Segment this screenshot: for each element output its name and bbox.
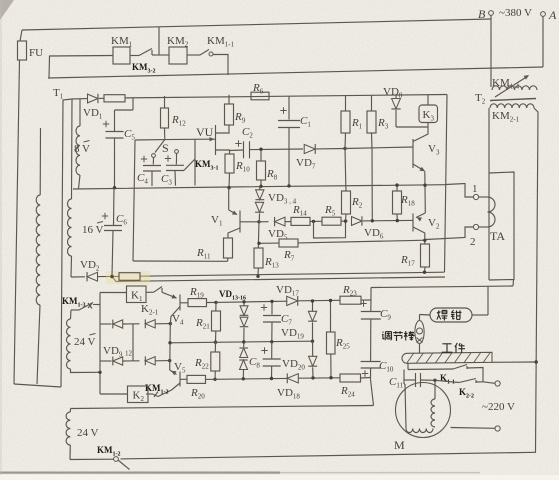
label plus C4 xyxy=(141,156,147,162)
wire left bus V100 xyxy=(99,293,101,395)
capacitor C6 xyxy=(104,188,122,277)
junction R13 bottom xyxy=(256,275,259,278)
label 24V mid xyxy=(74,334,96,349)
wire workpiece right xyxy=(492,361,536,363)
transistor V5 xyxy=(158,370,187,397)
diode VD7 xyxy=(304,144,345,154)
label KM1 xyxy=(111,35,133,49)
junction VD2 rail xyxy=(110,275,113,278)
svg-text:16 V: 16 V xyxy=(82,224,104,236)
label VD5 xyxy=(268,228,288,242)
motor winding aux xyxy=(404,384,433,433)
transistor V3 xyxy=(413,127,428,186)
winding T1 16V xyxy=(68,99,73,277)
label K3 xyxy=(423,109,435,123)
label KM1-2 bottom xyxy=(97,445,121,458)
label R14 xyxy=(292,204,307,218)
svg-text:1: 1 xyxy=(472,183,478,195)
capacitor C2 xyxy=(230,141,304,158)
junction VD19 mid xyxy=(311,340,314,343)
diode VD6 xyxy=(352,216,413,225)
label C9 xyxy=(380,308,391,322)
wire node KM2 feed xyxy=(159,27,169,56)
contact K1-1 xyxy=(453,365,483,382)
junction R22 bottom xyxy=(213,378,216,381)
label 24V bottom xyxy=(77,427,99,439)
contact KM1-2 bottom xyxy=(114,452,536,469)
label plus C2 xyxy=(235,140,241,146)
junction C8 bottom xyxy=(270,377,273,380)
label plus C7 xyxy=(261,304,267,310)
wire right edge xyxy=(445,95,448,273)
motor winding main xyxy=(431,380,435,427)
diode VD14 xyxy=(240,317,249,342)
resistor after VD1 xyxy=(104,95,125,102)
junction R18 bottom xyxy=(396,219,399,222)
label C5 xyxy=(124,128,135,142)
label K1-1 xyxy=(440,373,455,386)
junction R25 bottom xyxy=(329,376,332,379)
winding T1 8V xyxy=(76,99,80,189)
svg-text:12: 12 xyxy=(125,350,133,358)
label KM2 xyxy=(167,35,189,49)
label R3 xyxy=(377,117,389,131)
label VD18 xyxy=(277,387,300,401)
capacitor C10 xyxy=(361,362,381,380)
svg-text:VU: VU xyxy=(196,125,214,139)
core T2 xyxy=(490,99,536,101)
terminal 1 xyxy=(473,194,478,199)
label plus C6 xyxy=(102,213,108,219)
label FU xyxy=(29,47,43,59)
fuse FU xyxy=(14,30,27,384)
label B xyxy=(478,7,486,21)
label V1 xyxy=(211,214,223,228)
resistor R21 xyxy=(212,302,221,342)
winding T1 24V xyxy=(66,310,100,373)
contactor coil KM1 xyxy=(113,47,130,64)
junction V3 emitter common xyxy=(423,184,426,187)
wire top 380V bus xyxy=(22,19,491,30)
terminal B xyxy=(489,11,494,16)
wire T2 secondary left down xyxy=(488,108,490,280)
label KM1-3 xyxy=(62,296,86,309)
label gongjian workpiece xyxy=(442,343,465,353)
label R17 xyxy=(400,254,415,268)
winding KM1-4 primary T2 xyxy=(492,86,537,90)
junction 24V bus xyxy=(98,371,101,374)
label C7 xyxy=(281,313,292,327)
resistor R14 xyxy=(285,217,322,225)
label VD17 xyxy=(276,284,299,298)
label KM2-1 xyxy=(492,110,520,124)
junction C5 common xyxy=(113,186,116,189)
wire T2 secondary right down xyxy=(534,108,538,452)
label R20 xyxy=(190,387,205,401)
contact KM3-1 xyxy=(184,139,195,186)
label V3 xyxy=(428,143,440,157)
workpiece hatch xyxy=(407,353,490,363)
diode VD15 xyxy=(239,342,248,358)
diode VD4 xyxy=(255,202,264,222)
resistor R17 xyxy=(421,244,430,272)
label R19 xyxy=(189,286,204,300)
motor circle M xyxy=(396,383,451,438)
label R25 xyxy=(335,337,350,351)
resistor R5 xyxy=(322,217,348,225)
label VD20 xyxy=(282,358,305,372)
junction R21 mid xyxy=(214,341,217,344)
svg-text:FU: FU xyxy=(29,47,43,59)
label 16V xyxy=(82,222,104,237)
label plus C5 xyxy=(103,121,109,127)
svg-text:TA: TA xyxy=(490,229,505,243)
label plus C8 xyxy=(261,347,267,353)
svg-text:B: B xyxy=(478,7,486,21)
label A xyxy=(548,8,557,22)
junction V2 collector xyxy=(423,239,426,242)
relay coil K3 xyxy=(419,95,438,127)
label KM1-4 xyxy=(492,77,520,91)
label hanqian clamp xyxy=(437,310,462,320)
terminal 220V lower xyxy=(495,426,500,431)
label V2 xyxy=(428,217,440,231)
label C8 xyxy=(249,356,260,370)
resistor R13 xyxy=(254,222,263,276)
junction workpiece RV xyxy=(535,360,538,363)
wire R3 down xyxy=(371,148,373,221)
label VD19 xyxy=(281,327,304,341)
contact K2-1 xyxy=(146,287,162,293)
diode VD16 xyxy=(239,360,248,379)
wire base subloop xyxy=(314,221,346,238)
wire A drop xyxy=(542,17,544,68)
label R5 xyxy=(324,204,336,218)
label K2-1 xyxy=(141,303,159,317)
wire V1 emitter riser xyxy=(228,188,230,210)
contact KM1-2 V5 xyxy=(146,392,158,398)
label C11 xyxy=(389,376,404,390)
label plus C3 xyxy=(165,155,171,161)
label C10 xyxy=(379,360,394,374)
label plus C10 xyxy=(362,370,368,376)
label K1 xyxy=(131,290,143,304)
highlight smudge xyxy=(106,271,150,284)
label V5 xyxy=(174,361,186,375)
wire rail VD1 top xyxy=(72,95,447,100)
contact K2-2 xyxy=(435,379,495,384)
wire KM row feed xyxy=(49,56,113,79)
winding T1 primary xyxy=(36,128,40,384)
rod wire xyxy=(420,314,431,317)
label R1 xyxy=(351,117,363,131)
wire lower feed xyxy=(112,277,445,282)
label plus C9 xyxy=(360,300,366,306)
winding 24V bottom xyxy=(66,409,70,460)
label 380V xyxy=(499,7,532,19)
arrow T2 adjust xyxy=(495,75,529,97)
junction VD7 R1 xyxy=(343,147,346,150)
junction mid left xyxy=(168,341,171,344)
wire VD7 to V3 xyxy=(345,147,413,149)
contact KM1-3 xyxy=(71,303,100,311)
terminal A xyxy=(541,12,546,17)
label 8V xyxy=(74,141,90,156)
resistor R3 xyxy=(367,95,376,148)
wire workpiece tap xyxy=(408,363,453,369)
label KM3-2 xyxy=(132,62,156,75)
switch S contact 2 xyxy=(175,150,179,160)
label VU xyxy=(196,125,214,139)
label M xyxy=(394,438,405,452)
diode VD17 xyxy=(287,296,340,306)
junction R8 bottom xyxy=(259,185,262,188)
junction R3 base row xyxy=(371,219,374,222)
resistor R6 xyxy=(251,92,269,100)
rod holder xyxy=(415,315,424,354)
label V4 xyxy=(172,313,184,327)
svg-text:24 V: 24 V xyxy=(77,427,99,439)
contact KM1-1 xyxy=(187,50,213,57)
label R11 xyxy=(196,247,211,261)
label S xyxy=(162,141,169,155)
resistor R2 xyxy=(342,149,351,222)
label R7 xyxy=(283,249,295,263)
junction R18 top xyxy=(395,183,398,186)
diode VD13 xyxy=(240,302,249,316)
label R23 xyxy=(342,284,357,298)
wire terminal2 xyxy=(426,227,488,240)
label R12 xyxy=(171,114,186,128)
wire KM1-1 to bus xyxy=(213,55,228,76)
wire rail common xyxy=(73,185,446,189)
junction V1 base xyxy=(257,220,260,223)
transistor V4 xyxy=(162,292,188,323)
junction R8 top xyxy=(259,148,262,151)
label KM3-1 xyxy=(195,159,219,172)
label C1 xyxy=(300,115,311,129)
label VD2 xyxy=(80,259,100,273)
wire bottom loop top xyxy=(71,406,374,409)
label VD1 xyxy=(83,107,103,121)
svg-text:~380 V: ~380 V xyxy=(499,7,532,19)
resistor R1 xyxy=(341,95,350,148)
junction C10 R24 xyxy=(371,379,374,405)
page left shade xyxy=(0,0,2,475)
resistor R8 xyxy=(257,149,266,186)
label T2 xyxy=(475,92,486,106)
label K2-2 xyxy=(459,387,474,400)
resistor R11 xyxy=(224,238,233,261)
junction VD19 top xyxy=(311,299,314,302)
label VD8 xyxy=(383,86,403,100)
resistor R23 xyxy=(340,296,371,304)
wire 380V bus 2 xyxy=(48,67,543,78)
label C6 xyxy=(116,213,127,227)
wire TA drop xyxy=(512,280,515,286)
label R21 xyxy=(195,317,210,331)
label R9 xyxy=(234,111,246,125)
wire K1 feed xyxy=(100,292,127,294)
junction R19 R21 xyxy=(214,301,217,304)
svg-text:24 V: 24 V xyxy=(74,336,96,348)
wire bottom rail left xyxy=(70,458,114,460)
resistor R20 xyxy=(187,375,288,383)
svg-text:M: M xyxy=(394,438,405,452)
transistor V2 xyxy=(412,213,425,244)
wire terminal1 xyxy=(446,184,488,198)
svg-text:S: S xyxy=(162,141,169,155)
wire B drop xyxy=(490,16,492,88)
label R10 xyxy=(235,160,250,174)
relay coil K2 xyxy=(100,386,148,403)
capacitor C11 xyxy=(404,370,435,388)
bridge VD9-12 row2 xyxy=(100,356,170,365)
resistor R22 xyxy=(211,342,220,379)
label VD3-4 xyxy=(268,192,297,206)
wire R11 return xyxy=(133,260,228,262)
page bottom shadow xyxy=(0,472,480,474)
capacitor C3 xyxy=(166,160,184,186)
diode VD3 xyxy=(255,186,264,200)
label R8 xyxy=(266,168,278,182)
resistor R7 xyxy=(259,239,426,247)
capacitor C8 xyxy=(263,342,281,379)
label R13 xyxy=(264,256,279,270)
clamp symbol xyxy=(430,308,472,322)
diode VD2 xyxy=(87,272,97,281)
label VD7 xyxy=(296,157,316,171)
resistor bottom rail xyxy=(119,273,140,281)
junction C7 top xyxy=(270,300,273,303)
junction VD20 bottom xyxy=(311,376,314,379)
resistor R12 xyxy=(161,96,169,140)
wire V3 emitter to V2 xyxy=(424,186,426,213)
contactor coil KM2 xyxy=(169,47,187,64)
transistor VU xyxy=(208,125,230,155)
wire clamp right xyxy=(472,287,488,315)
label R22 xyxy=(194,357,209,371)
resistor R9 xyxy=(225,95,234,125)
box TA enclosure xyxy=(489,172,514,280)
svg-text:A: A xyxy=(548,8,557,22)
junction R10 common xyxy=(227,186,230,189)
page corner mark xyxy=(0,0,14,20)
diode VD19 xyxy=(308,301,317,341)
wire motor lower xyxy=(451,427,495,430)
resistor R19 xyxy=(188,299,216,307)
label 2 xyxy=(470,236,476,248)
capacitor C4 xyxy=(143,158,161,187)
junction bridge out1 xyxy=(169,322,172,325)
svg-text:2: 2 xyxy=(470,236,476,248)
label VD9-12 xyxy=(103,345,133,359)
label T1 xyxy=(53,87,64,101)
label R2 xyxy=(351,196,363,210)
label C2 xyxy=(242,126,253,140)
junction R14 R5 xyxy=(312,220,315,223)
svg-text:8 V: 8 V xyxy=(74,143,90,155)
workpiece bar xyxy=(402,352,492,363)
resistor R18 xyxy=(393,185,402,221)
wire T1 primary loop xyxy=(14,99,72,387)
diode VD1 xyxy=(88,94,98,103)
resistor R25 xyxy=(327,301,336,378)
wire mid row xyxy=(170,341,313,343)
label C3 xyxy=(161,173,172,187)
label 220V xyxy=(482,401,515,413)
wire rail R19 xyxy=(216,301,288,302)
wire rail bottom VD2 xyxy=(71,272,445,277)
capacitor C1 xyxy=(278,96,300,186)
label R18 xyxy=(400,194,415,208)
junction R5 VD6 xyxy=(344,219,347,222)
junction VD col top xyxy=(242,300,245,303)
bridge VD9-12 row1 xyxy=(100,319,170,328)
wire V4 V5 link xyxy=(169,324,172,370)
capacitor C7 xyxy=(263,301,281,341)
relay coil K1 xyxy=(127,286,147,303)
terminal 2 xyxy=(473,224,478,229)
junction R25 top xyxy=(329,299,332,302)
label plus C1 xyxy=(280,107,286,113)
junction bridge out2 xyxy=(168,359,171,362)
transistor V1 xyxy=(228,210,259,238)
diode VD8 xyxy=(391,95,428,127)
wire secondary top xyxy=(371,286,513,288)
contact KM3-2 xyxy=(130,49,159,56)
junction C7 mid xyxy=(270,340,273,343)
label C4 xyxy=(137,172,148,186)
switch S blade xyxy=(152,140,165,158)
label KM1-2 V5 xyxy=(145,383,169,396)
label R6 xyxy=(252,82,264,96)
winding KM2-1 secondary T2 xyxy=(490,104,534,108)
label tiaojiebang rod xyxy=(382,331,415,341)
diode VD20 xyxy=(308,341,317,378)
label 1 xyxy=(472,183,478,195)
junction VD col mid xyxy=(242,340,245,343)
label KM1-1 xyxy=(207,35,235,49)
bridge mid link xyxy=(132,324,134,361)
resistor R10 xyxy=(225,154,234,188)
wire S block top xyxy=(135,138,208,141)
label VD13-16 xyxy=(219,289,246,302)
label TA xyxy=(490,229,505,243)
label R24 xyxy=(340,385,355,399)
svg-text:~220 V: ~220 V xyxy=(482,401,515,413)
diode VD5 xyxy=(259,217,285,226)
label VD6 xyxy=(364,227,384,241)
label K2 xyxy=(133,390,145,404)
resistor R24 xyxy=(340,374,371,382)
wire S block left xyxy=(133,140,135,261)
capacitor C5 xyxy=(106,98,134,188)
junction VD col bottom xyxy=(242,377,245,380)
diode VD18 xyxy=(287,373,340,383)
junction C11 motor xyxy=(433,379,436,382)
terminal 220V upper xyxy=(495,381,500,386)
junction R7 left xyxy=(257,242,260,245)
capacitor C9 xyxy=(361,288,381,362)
winding TA xyxy=(488,197,496,227)
junction C1 common xyxy=(287,184,290,187)
junction R17 bottom xyxy=(423,271,426,274)
